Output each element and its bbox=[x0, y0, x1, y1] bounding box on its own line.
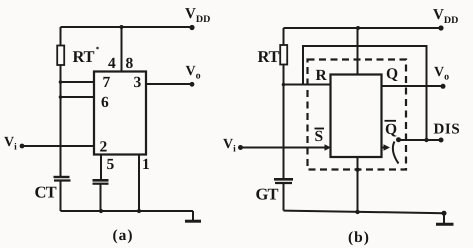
svg-text:1: 1 bbox=[142, 156, 150, 173]
svg-text:4: 4 bbox=[108, 55, 116, 72]
svg-text:R: R bbox=[316, 67, 328, 84]
svg-text:S: S bbox=[315, 128, 324, 145]
svg-text:Q: Q bbox=[385, 121, 397, 138]
svg-text:2: 2 bbox=[100, 139, 108, 156]
svg-text:DIS: DIS bbox=[434, 122, 461, 138]
svg-text:7: 7 bbox=[103, 74, 111, 91]
svg-text:(a): (a) bbox=[113, 227, 134, 244]
svg-text:3: 3 bbox=[134, 74, 142, 91]
svg-text:8: 8 bbox=[126, 55, 134, 72]
svg-text:GT: GT bbox=[256, 185, 279, 204]
svg-text:RT: RT bbox=[258, 47, 280, 66]
svg-text:RT: RT bbox=[73, 47, 95, 66]
svg-text:CT: CT bbox=[35, 183, 57, 202]
svg-text:5: 5 bbox=[107, 156, 115, 173]
svg-text:6: 6 bbox=[101, 94, 109, 111]
svg-text:(b): (b) bbox=[348, 229, 370, 246]
svg-text:Q: Q bbox=[386, 66, 398, 83]
